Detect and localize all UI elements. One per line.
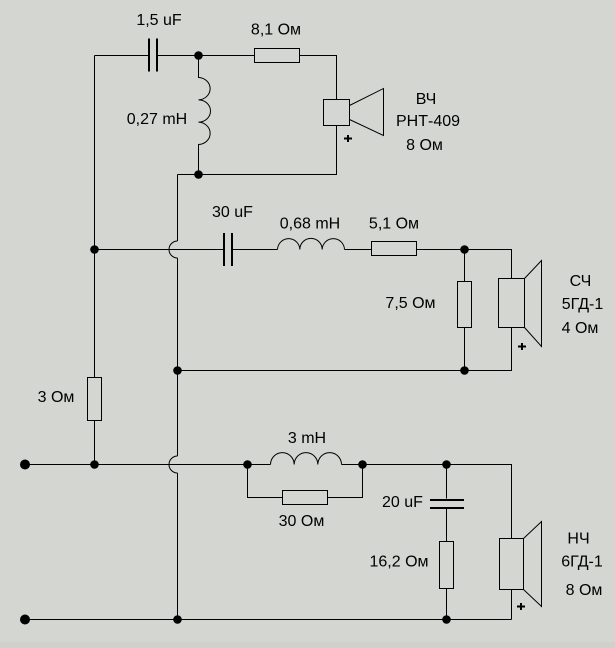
- node K junction: [173, 615, 182, 624]
- wire from resistor 16,2 to bottom rail: [446, 589, 448, 620]
- wire 30 Om branch left vertical: [248, 465, 283, 498]
- resistor 30 Om body: [283, 491, 328, 505]
- svg-text:30 Ом: 30 Ом: [279, 513, 325, 530]
- node C junction: [90, 245, 99, 254]
- node E junction: [460, 366, 469, 375]
- node J junction: [442, 460, 451, 469]
- resistor 7,5 Om body: [458, 282, 472, 328]
- svg-text:0,27 mH: 0,27 mH: [127, 111, 187, 128]
- node B junction: [194, 170, 203, 179]
- svg-text:СЧ: СЧ: [570, 273, 592, 290]
- inductor L3 3 mH: [271, 453, 342, 465]
- node G junction: [90, 460, 99, 469]
- capacitor C2 30 uF plates: [224, 233, 232, 266]
- speaker SCh body: [499, 279, 525, 328]
- inductor L1 0,27 mH: [199, 56, 211, 175]
- wire top rail from left rail corner to capacitor C1: [95, 55, 149, 57]
- speaker NCh plus: [517, 603, 525, 610]
- wire from capacitor 30uF to inductor 0,68: [233, 249, 278, 251]
- resistor 5,1 Om body: [372, 242, 417, 256]
- input terminal minus: [20, 615, 30, 625]
- svg-text:8 Ом: 8 Ом: [566, 582, 603, 599]
- svg-text:8,1 Ом: 8,1 Ом: [251, 22, 301, 39]
- wire stub node D to resistor 7,5: [464, 250, 466, 282]
- svg-text:3 Ом: 3 Ом: [38, 389, 75, 406]
- speaker SCh plus: [518, 343, 526, 350]
- resistor 16,2 Om body: [440, 542, 454, 589]
- svg-text:НЧ: НЧ: [567, 531, 589, 548]
- svg-text:7,5 Ом: 7,5 Ом: [385, 295, 435, 312]
- svg-text:30 uF: 30 uF: [212, 204, 253, 221]
- wire stub node 20uF top: [446, 465, 448, 499]
- svg-text:0,68 mH: 0,68 mH: [280, 216, 340, 233]
- svg-text:6ГД-1: 6ГД-1: [561, 554, 603, 571]
- wire 30 Om branch right vertical: [328, 465, 363, 498]
- wire hop over low rail: [169, 456, 178, 473]
- node H junction: [243, 460, 252, 469]
- wire second vertical rail mid segment: [177, 258, 179, 371]
- wire from node B to second vertical rail corner: [178, 174, 199, 176]
- node D junction: [460, 245, 469, 254]
- wire stub resistor 7,5 to node E: [464, 328, 466, 371]
- wire from inductor 0,68 to resistor 5,1: [345, 249, 372, 251]
- speaker NCh cone: [524, 522, 542, 607]
- node A junction: [194, 51, 203, 60]
- wire from resistor 5,1 to node D: [417, 249, 465, 251]
- wire from 20uF to resistor 16,2: [446, 509, 448, 542]
- wire woofer return to bottom rail: [511, 590, 513, 620]
- wire from resistor 8,1 to tweeter feed corner: [300, 56, 337, 100]
- resistor 8,1 Om body: [255, 49, 300, 63]
- wire left rail vertical: [94, 56, 96, 378]
- wire mid feed from node C to capacitor 30uF: [95, 249, 224, 251]
- resistor 3 Om body: [88, 378, 102, 421]
- wire from node D to midrange feed corner: [465, 250, 512, 279]
- wire bottom rail: [25, 619, 512, 621]
- node I junction: [358, 460, 367, 469]
- wire mid rail between node F and node E: [178, 370, 465, 372]
- capacitor C3 20 uF plates: [430, 500, 464, 508]
- speaker BCh horn: [350, 89, 384, 136]
- wire low rail from input terminal to 3mH coil: [25, 464, 271, 466]
- node F junction: [173, 366, 182, 375]
- wire second vertical rail upper segment: [177, 175, 179, 242]
- input terminal plus: [20, 460, 30, 470]
- svg-text:20 uF: 20 uF: [382, 494, 423, 511]
- wire hop over mid feed wire: [169, 241, 178, 258]
- svg-text:4 Ом: 4 Ом: [562, 320, 599, 337]
- wire from node A to resistor 8,1: [199, 55, 255, 57]
- speaker SCh cone: [525, 261, 542, 347]
- speaker NCh body: [500, 539, 524, 590]
- svg-text:1,5 uF: 1,5 uF: [136, 12, 182, 29]
- wire from C1 to node A: [158, 55, 199, 57]
- wire left rail below resistor 3 Om: [94, 421, 96, 465]
- svg-text:8 Ом: 8 Ом: [406, 137, 443, 154]
- wire second vertical rail lower segment: [177, 371, 179, 457]
- wire midrange return to node E: [465, 328, 512, 371]
- svg-text:РНТ-409: РНТ-409: [396, 113, 460, 130]
- svg-text:5,1 Ом: 5,1 Ом: [369, 216, 419, 233]
- node L junction: [442, 615, 451, 624]
- wire second vertical rail bottom segment: [177, 473, 179, 620]
- speaker BCh plus: [344, 135, 352, 142]
- svg-text:ВЧ: ВЧ: [416, 91, 437, 108]
- speaker BCh square: [324, 100, 350, 126]
- wire low rail from 3mH coil to woofer feed corner: [342, 465, 512, 539]
- wire tweeter return down-left to node B: [199, 126, 337, 175]
- capacitor C1 1,5 uF plates: [149, 39, 157, 72]
- svg-text:3 mH: 3 mH: [288, 430, 326, 447]
- inductor L2 0,68 mH: [278, 238, 345, 249]
- svg-text:5ГД-1: 5ГД-1: [562, 296, 604, 313]
- svg-text:16,2 Ом: 16,2 Ом: [369, 554, 428, 571]
